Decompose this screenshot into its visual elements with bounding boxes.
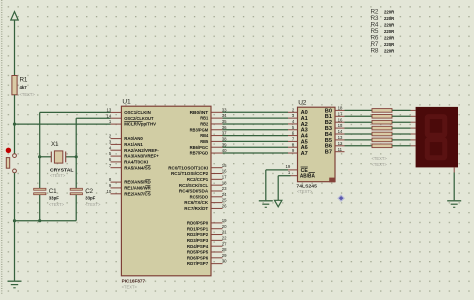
svg-text:14: 14 [107, 113, 112, 118]
node crystal right [75, 155, 78, 158]
svg-text:RB0/INT: RB0/INT [190, 110, 209, 115]
svg-text:38: 38 [222, 137, 227, 142]
U1 pin 7 RA5/AN4/SS [109, 163, 151, 171]
svg-text:AB/BA: AB/BA [300, 174, 315, 180]
svg-text:15: 15 [338, 123, 343, 128]
svg-text:RC7/RX/DT: RC7/RX/DT [184, 206, 208, 211]
U1 pin 39 RB6/PGC [190, 142, 228, 150]
display pin stub 4 [411, 133, 416, 135]
resistor R7 [372, 138, 392, 142]
U1 pin 10 RE2/AN7/CS [107, 189, 151, 197]
svg-text:MCLR/Vpp/THV: MCLR/Vpp/THV [124, 122, 156, 127]
svg-text:OSC1/CLKIN: OSC1/CLKIN [124, 110, 151, 115]
svg-text:220R: 220R [384, 22, 395, 27]
U1 pin 36 RB3/PGM [190, 125, 228, 133]
U2 pin 4 A2 [288, 119, 308, 128]
svg-text:22: 22 [222, 235, 227, 240]
svg-text:A7: A7 [301, 151, 308, 157]
svg-text:RA2/AN2/VREF-: RA2/AN2/VREF- [124, 148, 159, 153]
display pin stub 0 [411, 109, 416, 111]
svg-text:220R: 220R [384, 42, 395, 47]
U1 pin 1 MCLR/Vpp/THV [109, 119, 156, 127]
svg-text:RD6/PSP6: RD6/PSP6 [187, 255, 209, 260]
resistor R1 [12, 76, 35, 98]
U1 pin 22 RD3/PSP3 [187, 235, 227, 243]
wire R6 to display [392, 133, 411, 135]
svg-text:RA4/T0CKI: RA4/T0CKI [124, 160, 148, 165]
buffer U2 74LS245 body [296, 100, 335, 194]
U1 pin 25 RC6/TX/CK [184, 198, 227, 206]
resistor R3 [372, 115, 392, 119]
U2 pin 13 B5 [325, 135, 345, 144]
U1 pin 13 OSC1/CLKIN [107, 108, 151, 116]
U1 pin 24 RC5/SDO [190, 192, 228, 200]
resistor R8 [372, 144, 392, 148]
U1 pin 21 RD2/PSP2 [187, 230, 227, 238]
node rail left [13, 219, 16, 222]
U1 pin 15 RC0/T1OSO/T1CKI [168, 163, 227, 171]
svg-text:RB3/PGM: RB3/PGM [190, 127, 209, 132]
svg-text:33: 33 [222, 107, 227, 112]
svg-text:B7: B7 [325, 150, 332, 156]
U2 pin 3 A1 [288, 113, 308, 122]
svg-text:RC0/T1OSO/T1CKI: RC0/T1OSO/T1CKI [168, 165, 208, 170]
crystal X1 [40, 141, 76, 178]
svg-text:RD1/PSP1: RD1/PSP1 [187, 226, 209, 231]
svg-text:R8: R8 [371, 48, 379, 55]
svg-text:40: 40 [222, 148, 227, 153]
svg-text:11: 11 [338, 147, 343, 152]
ground arrow (U2 AB/BA) [275, 200, 282, 207]
svg-text:R1: R1 [20, 77, 28, 84]
svg-text:RC1/T1OSI/CCP2: RC1/T1OSI/CCP2 [171, 171, 209, 176]
svg-text:RD0/PSP0: RD0/PSP0 [187, 221, 209, 226]
U1 active-low overlines [124, 121, 150, 191]
U1 pin 3 RA1/AN1 [109, 140, 143, 148]
svg-text:220R: 220R [384, 35, 395, 40]
U2 pin 16 B2 [325, 117, 345, 126]
power terminal +5V [11, 12, 18, 20]
svg-text:RD3/PSP3: RD3/PSP3 [187, 238, 209, 243]
wire display common to ground [453, 167, 455, 200]
wire R8 to display [392, 145, 411, 147]
svg-text:23: 23 [222, 186, 227, 191]
svg-text:15: 15 [222, 163, 227, 168]
display pin stub 6 [411, 145, 416, 147]
svg-text:27: 27 [222, 241, 227, 246]
resistor bank <TEXT> labels [372, 156, 388, 167]
wire B2 to R4 [345, 121, 373, 123]
svg-text:U1: U1 [122, 99, 131, 106]
svg-text:RD7/PSP7: RD7/PSP7 [187, 261, 209, 266]
svg-text:RB1: RB1 [200, 116, 208, 121]
U1 pin 17 RC2/CCP1 [187, 174, 227, 182]
svg-text:RD4/PSP4: RD4/PSP4 [187, 244, 209, 249]
node rail C1 [38, 219, 41, 222]
svg-text:26: 26 [222, 204, 227, 209]
svg-text:<TEXT>: <TEXT> [49, 202, 65, 207]
U1 pin 19 RD0/PSP0 [187, 218, 227, 226]
wire ground rail [15, 220, 77, 222]
svg-text:13: 13 [107, 108, 112, 113]
wire B4 to R6 [345, 133, 373, 135]
U1 pin 8 RE0/AN5/RD [109, 177, 152, 185]
svg-text:C1: C1 [49, 188, 57, 195]
wire RB3 to A3 [223, 129, 289, 131]
node MCLR junction [13, 123, 16, 126]
U1 pin 2 RA0/AN0 [109, 134, 143, 142]
svg-text:29: 29 [222, 253, 227, 258]
display pin stub 1 [411, 115, 416, 117]
U1 pin 27 RD4/PSP4 [187, 241, 227, 249]
resistor R6 [372, 132, 392, 136]
op-amp U1 PIC16F877 body [121, 99, 211, 290]
svg-text:RC6/TX/CK: RC6/TX/CK [184, 200, 209, 205]
ground (display) [447, 201, 461, 208]
U1 pin 14 OSC2/CLKOUT [107, 113, 154, 121]
svg-text:<TEXT>: <TEXT> [50, 173, 66, 178]
svg-text:RD2/PSP2: RD2/PSP2 [187, 232, 209, 237]
U2 pin 5 A3 [288, 125, 308, 134]
svg-text:RA5/AN4/SS: RA5/AN4/SS [124, 165, 151, 170]
svg-text:CRYSTAL: CRYSTAL [50, 167, 74, 172]
wire MCLR to U1 pin 1 [15, 123, 111, 125]
U1 pin 4 RA2/AN2/VREF- [109, 145, 159, 153]
svg-text:X1: X1 [51, 141, 59, 148]
U1 pin 23 RC4/SDI/SDA [179, 186, 227, 194]
node marker diamond [338, 195, 344, 201]
U2 pin 7 A5 [288, 137, 308, 146]
U1 pin 6 RA4/T0CKI [109, 157, 148, 165]
svg-text:14: 14 [338, 129, 343, 134]
svg-text:RA3/AN3/VREF+: RA3/AN3/VREF+ [124, 154, 159, 159]
svg-text:18: 18 [338, 106, 343, 111]
svg-text:16: 16 [338, 117, 343, 122]
svg-text:220R: 220R [384, 16, 395, 21]
svg-text:17: 17 [222, 174, 227, 179]
svg-text:35: 35 [222, 119, 227, 124]
7-segment display [416, 107, 458, 167]
svg-text:OSC2/CLKOUT: OSC2/CLKOUT [124, 116, 153, 121]
U1 pin 26 RC7/RX/DT [184, 204, 227, 212]
svg-text:RB7/PGD: RB7/PGD [190, 151, 209, 156]
wire R7 to display [392, 139, 411, 141]
button (reset) [6, 148, 17, 173]
U1 pin 16 RC1/T1OSI/CCP2 [171, 169, 227, 177]
ground (bottom left) [8, 281, 22, 288]
U1 pin 28 RD5/PSP5 [187, 247, 227, 255]
resistor R2 [372, 109, 392, 113]
resistor R4 [372, 120, 392, 124]
svg-text:25: 25 [222, 198, 227, 203]
wire RB5 to A5 [223, 140, 289, 142]
svg-text:<TEXT>: <TEXT> [297, 189, 313, 194]
U2 pin 15 B3 [325, 123, 345, 132]
svg-text:<TEXT>: <TEXT> [20, 92, 36, 97]
svg-text:RA0/AN0: RA0/AN0 [124, 136, 143, 141]
svg-text:RB5: RB5 [200, 139, 208, 144]
wire RB0 to A0 [223, 111, 289, 113]
svg-text:20: 20 [222, 224, 227, 229]
svg-text:<TEXT>: <TEXT> [85, 202, 101, 207]
svg-text:PIC16F877: PIC16F877 [122, 278, 146, 283]
resistor R5 [372, 126, 392, 130]
wire OSC1 to crystal [40, 112, 111, 156]
U2 pin 8 A6 [288, 142, 308, 151]
U2 pin 12 B6 [325, 141, 345, 150]
U1 pin 35 RB2 [200, 119, 227, 127]
svg-text:RB2: RB2 [200, 122, 208, 127]
U2 pin 2 A0 [288, 107, 308, 116]
wire RB6 to A6 [223, 146, 289, 148]
wire B6 to R8 [345, 145, 373, 147]
svg-text:C2: C2 [85, 188, 93, 195]
svg-text:28: 28 [222, 247, 227, 252]
svg-text:RC3/SCK/SCL: RC3/SCK/SCL [179, 183, 209, 188]
wire RB1 to A1 [223, 117, 289, 119]
svg-text:24: 24 [222, 192, 227, 197]
svg-text:220R: 220R [384, 29, 395, 34]
svg-text:10: 10 [107, 189, 112, 194]
wire B5 to R7 [345, 139, 373, 141]
wire B3 to R5 [345, 127, 373, 129]
U1 pin 40 RB7/PGD [190, 148, 228, 156]
U1 pin 38 RB5 [200, 137, 227, 145]
svg-text:RC2/CCP1: RC2/CCP1 [187, 177, 209, 182]
svg-text:RC4/SDI/SDA: RC4/SDI/SDA [179, 189, 209, 194]
U2 pin 14 B4 [325, 129, 345, 138]
resistor labels R2-R8 220R [371, 9, 396, 55]
wire button to ground rail [14, 173, 16, 221]
U1 pin 9 RE1/AN6/WR [109, 183, 152, 191]
U2 pin 1 AB/BA [288, 170, 315, 180]
wire rail to ground [14, 221, 16, 281]
svg-text:<TEXT>: <TEXT> [372, 156, 388, 161]
svg-text:30: 30 [222, 259, 227, 264]
wire R3 to display [392, 115, 411, 117]
U1 pin 33 RB0/INT [190, 107, 228, 115]
svg-text:74LS245: 74LS245 [296, 183, 317, 188]
svg-text:39: 39 [222, 142, 227, 147]
U2 pin 9 A7 [288, 148, 308, 157]
svg-text:U2: U2 [298, 100, 307, 107]
wire CE to ground [266, 170, 288, 200]
svg-text:16: 16 [222, 169, 227, 174]
svg-text:4k7: 4k7 [20, 85, 28, 90]
svg-text:13: 13 [338, 135, 343, 140]
svg-text:19: 19 [222, 218, 227, 223]
display pin stub 5 [411, 139, 416, 141]
wire B0 to R2 [345, 109, 373, 111]
svg-text:36: 36 [222, 125, 227, 130]
svg-text:19: 19 [286, 164, 291, 169]
wire R2 to display [392, 109, 411, 111]
wire R4 to display [392, 121, 411, 123]
svg-text:34: 34 [222, 113, 227, 118]
U2 pin 19 CE [286, 164, 309, 174]
display pin stub 3 [411, 127, 416, 129]
wire AB/BA to ground arrow [278, 176, 290, 201]
U1 pin 34 RB1 [200, 113, 227, 121]
U2 pin 17 B1 [325, 111, 345, 120]
svg-text:21: 21 [222, 230, 227, 235]
svg-text:33pF: 33pF [85, 196, 95, 201]
wire R1 to button [14, 95, 16, 154]
svg-text:<TEXT>: <TEXT> [372, 162, 388, 167]
capacitor C1 [34, 157, 65, 221]
svg-text:33pF: 33pF [49, 196, 59, 201]
wire R5 to display [392, 127, 411, 129]
svg-text:RB6/PGC: RB6/PGC [190, 145, 209, 150]
U1 pin 30 RD7/PSP7 [187, 259, 227, 267]
svg-text:18: 18 [222, 180, 227, 185]
capacitor C2 [70, 157, 101, 221]
wire B1 to R3 [345, 115, 373, 117]
svg-text:<TEXT>: <TEXT> [122, 284, 138, 289]
U2 pin 11 B7 [325, 147, 345, 156]
svg-text:12: 12 [338, 141, 343, 146]
U1 pin 29 RD6/PSP6 [187, 253, 227, 261]
wire power to R1 [14, 20, 16, 76]
node crystal left [38, 155, 41, 158]
svg-text:RD5/PSP5: RD5/PSP5 [187, 250, 209, 255]
wire RB7 to A7 [223, 152, 289, 154]
wire RB2 to A2 [223, 123, 289, 125]
svg-text:RE1/AN6/WR: RE1/AN6/WR [124, 186, 151, 191]
wire OSC2 to crystal [76, 118, 110, 157]
U1 pin 37 RB4 [200, 131, 227, 139]
display pin stub 2 [411, 121, 416, 123]
U2 pin 18 B0 [325, 106, 345, 115]
U1 pin 20 RD1/PSP1 [187, 224, 227, 232]
ground (U2 CE) [259, 201, 273, 208]
svg-text:220R: 220R [384, 9, 395, 14]
U1 pin 18 RC3/SCK/SCL [179, 180, 227, 188]
svg-text:RB4: RB4 [200, 133, 208, 138]
svg-text:37: 37 [222, 131, 227, 136]
svg-text:RA1/AN1: RA1/AN1 [124, 142, 143, 147]
svg-text:17: 17 [338, 111, 343, 116]
svg-text:RE0/AN5/RD: RE0/AN5/RD [124, 180, 151, 185]
U1 pin 5 RA3/AN3/VREF+ [109, 151, 159, 159]
wire RB4 to A4 [223, 135, 289, 137]
svg-text:220R: 220R [384, 48, 395, 53]
svg-text:RE2/AN7/CS: RE2/AN7/CS [124, 191, 151, 196]
svg-text:RC5/SDO: RC5/SDO [190, 194, 209, 199]
U2 pin 6 A4 [288, 131, 308, 140]
